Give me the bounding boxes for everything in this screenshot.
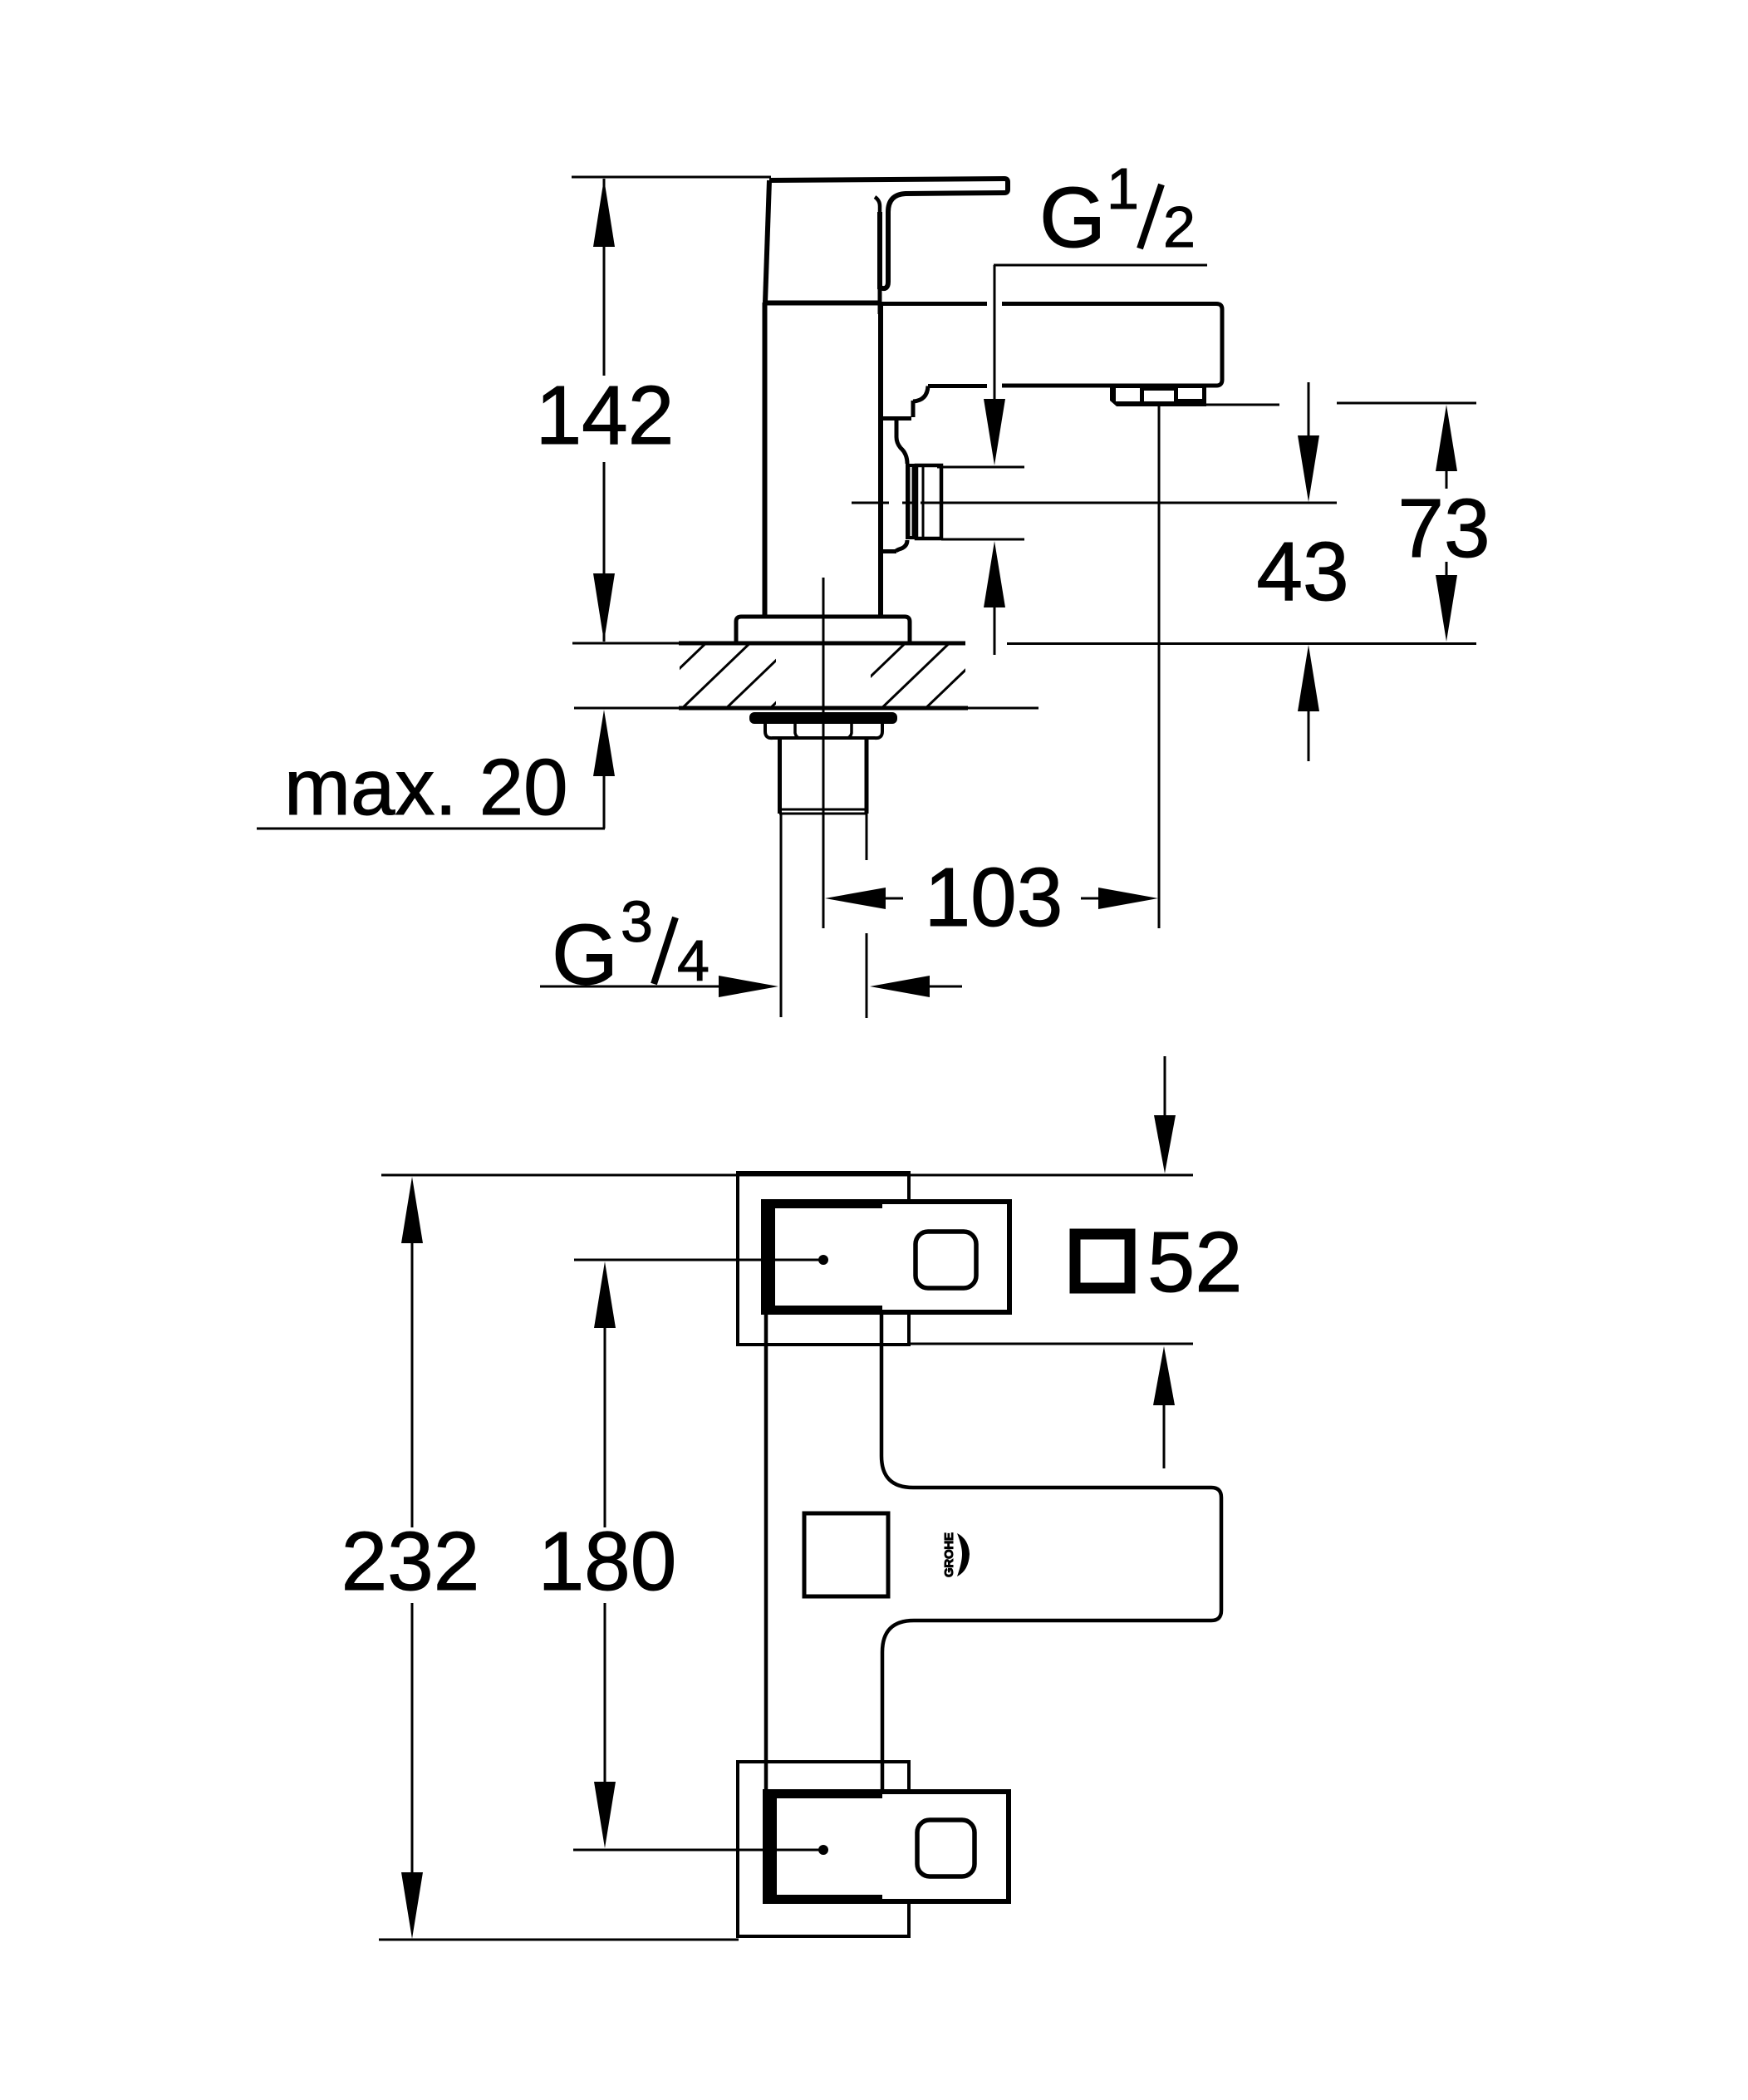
nut face line right: [847, 724, 852, 738]
dimension 52 arrow down: [1154, 1115, 1176, 1173]
svg-text:142: 142: [536, 369, 675, 462]
G 1/2 leader shoulder: [994, 264, 1207, 267]
dimension 52 arrow up: [1153, 1346, 1175, 1405]
mounting nut: [765, 724, 882, 738]
boss bottom underside: [882, 549, 896, 553]
svg-text:G: G: [1039, 170, 1106, 265]
G 1/2 arrow down to port top: [984, 399, 1005, 465]
dimension 142 line upper segment: [603, 179, 606, 376]
dimension 103 arrow left: [825, 888, 886, 909]
body right edge and spout front outline: [881, 1312, 1221, 1792]
svg-text:180: 180: [538, 1515, 677, 1608]
dimension 43 line lower: [1308, 711, 1310, 761]
shank end lines: [779, 809, 867, 811]
svg-text:52: 52: [1147, 1214, 1243, 1310]
svg-text:103: 103: [925, 851, 1063, 944]
deck top line: [572, 642, 679, 645]
dimension 180 arrow down: [594, 1782, 616, 1848]
body centerline: [822, 578, 825, 928]
bottom handle thick left edge: [765, 1792, 777, 1901]
lever front edge stub: [878, 289, 882, 314]
svg-text:1: 1: [1107, 156, 1139, 221]
dimension 73 arrow down: [1436, 575, 1457, 642]
port body: [916, 465, 941, 539]
dimension 52 line bottom tail: [1163, 1405, 1166, 1468]
dimension 142 arrow up: [593, 179, 615, 247]
body left edge front: [764, 1312, 768, 1792]
faucet body left edge: [763, 302, 768, 617]
dimension 103 arrow right: [1081, 898, 1098, 900]
port flange: [906, 464, 916, 539]
dimension 142 line lower segment: [603, 462, 606, 642]
dimension 142 arrow down: [593, 573, 615, 642]
svg-text:3: 3: [621, 889, 653, 954]
dimension 142 extension line top: [572, 176, 771, 179]
dimension 180 leader top: [574, 1259, 823, 1261]
spout outlet centerline: [1158, 406, 1161, 928]
lever handle outline: [769, 179, 1008, 288]
dimension 180 leader bottom: [573, 1849, 823, 1852]
body top line: [764, 301, 881, 306]
dimension 180 arrow up: [594, 1261, 616, 1328]
top mounting plate: [738, 1173, 909, 1345]
max.20 reference line: [257, 828, 605, 830]
washer: [749, 712, 897, 724]
max.20 dimension line: [603, 776, 606, 829]
bottom handle: [765, 1792, 1009, 1901]
dimension 43 line upper: [1308, 382, 1310, 435]
supply pipe left: [780, 814, 783, 1017]
top handle thick bottom segment: [764, 1306, 882, 1312]
dimension 73 arrow up: [1436, 405, 1457, 471]
dimension 232 line lower: [411, 1603, 414, 1872]
base plate: [736, 617, 910, 643]
port bottom extension line: [941, 539, 1024, 541]
lever front inner edge: [875, 197, 880, 286]
G 1/2 arrow up to port bottom: [984, 541, 1005, 607]
dimension 43 arrow up: [1298, 645, 1319, 711]
supply pipe right: [866, 814, 868, 860]
faucet body right edge: [878, 302, 883, 617]
spout underside fillet to boss: [913, 386, 928, 402]
top handle thick top segment: [764, 1202, 882, 1208]
dimension 73 line lower: [1446, 562, 1448, 575]
boss step1 face: [911, 401, 916, 417]
port axis centerline: [852, 502, 889, 504]
threaded shank left: [778, 738, 782, 814]
dimension 232 arrow up: [401, 1177, 423, 1243]
port top extension line: [937, 466, 1024, 469]
spout bottom line: [1002, 384, 1216, 388]
svg-text:4: 4: [677, 928, 710, 993]
dimension 232 extension bottom: [379, 1939, 739, 1941]
dimension 232 arrow down: [401, 1872, 423, 1939]
nut face line left: [795, 724, 799, 738]
svg-text:43: 43: [1256, 525, 1348, 618]
bottom handle thick bottom segment: [765, 1895, 882, 1901]
svg-text:max. 20: max. 20: [284, 743, 567, 832]
deck hatch left: [631, 635, 847, 715]
svg-text:232: 232: [341, 1515, 480, 1608]
bottom mounting plate: [738, 1762, 909, 1936]
dimension 232 line upper: [411, 1243, 414, 1527]
bottom handle thick top segment: [765, 1792, 882, 1798]
top handle thick left edge: [764, 1202, 775, 1312]
aerator window right: [1178, 388, 1202, 399]
boss step2 face: [896, 419, 907, 464]
top handle hole: [916, 1232, 976, 1288]
boss step1 underside: [882, 416, 911, 420]
port inner line: [922, 467, 925, 537]
spout top line: [881, 302, 987, 306]
handle body left edge: [765, 180, 769, 302]
aerator window middle: [1144, 391, 1174, 401]
svg-text:73: 73: [1397, 482, 1490, 575]
deck hatch right: [831, 635, 1002, 715]
GROHE logo: [942, 1532, 970, 1577]
G 1/2 arrow tail: [994, 607, 996, 655]
dimension 43 arrow down: [1298, 435, 1319, 502]
dimension 180 line upper: [604, 1328, 606, 1527]
port bottom fillet: [896, 540, 907, 552]
G 3/4 dimension left: [540, 986, 719, 988]
cartridge square front: [804, 1513, 888, 1596]
svg-text:GROHE: GROHE: [942, 1532, 956, 1577]
G 1/2 leader vertical: [994, 265, 996, 399]
dimension 52 extension lower: [909, 1343, 1193, 1345]
dimension 52 line top: [1164, 1056, 1166, 1115]
threaded shank right: [865, 738, 869, 814]
dimension 232 extension top: [381, 1174, 1193, 1177]
dimension 73 extension line (aerator bottom): [1206, 404, 1279, 406]
square symbol: [1075, 1234, 1130, 1288]
dimension 73 line upper: [1446, 471, 1448, 489]
svg-text:2: 2: [1163, 194, 1196, 259]
deck bottom line: [574, 707, 679, 710]
aerator window left: [1116, 388, 1140, 401]
G 3/4 dimension right: [870, 976, 930, 997]
svg-text:G: G: [552, 907, 618, 1002]
dimension 180 line lower: [604, 1603, 606, 1782]
top handle: [764, 1202, 1009, 1312]
bottom handle hole: [917, 1820, 975, 1876]
aerator block: [1110, 385, 1206, 406]
max.20 arrow up: [593, 710, 615, 776]
spout right end: [1216, 304, 1222, 386]
